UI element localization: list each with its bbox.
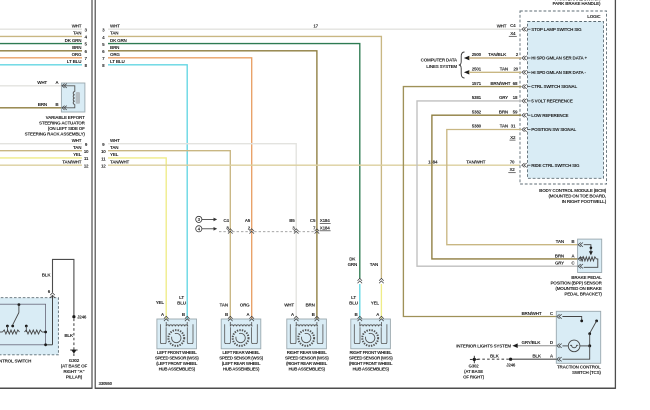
svg-text:LT BLU: LT BLU	[67, 59, 82, 64]
label WHT at right rear pin A	[284, 303, 294, 308]
svg-text:LOGIC: LOGIC	[587, 14, 601, 19]
svg-text:31: 31	[511, 124, 516, 129]
label ORG at left rear pin A	[240, 303, 250, 308]
svg-text:IN RIGHT FOOTWELL): IN RIGHT FOOTWELL)	[562, 199, 607, 204]
connector X184 pin C4	[223, 218, 232, 234]
sensor: left front wheel speed sensor	[157, 312, 197, 349]
svg-text:YEL: YEL	[73, 152, 82, 157]
connector X184 pin C5	[310, 218, 319, 234]
ground G302 left	[70, 350, 77, 356]
wire TAN row 10 to left rear sensor pin B	[101, 145, 230, 319]
svg-text:TAN/WHT: TAN/WHT	[466, 160, 486, 165]
svg-text:(LEFT REAR WHEEL: (LEFT REAR WHEEL	[222, 361, 261, 366]
svg-text:(AT BASE: (AT BASE	[464, 369, 483, 374]
svg-text:J246: J246	[77, 315, 87, 320]
connector right front TAN to YEL	[370, 262, 384, 319]
sensor: left rear wheel speed sensor	[221, 312, 261, 349]
svg-text:X2: X2	[509, 167, 515, 172]
svg-text:20: 20	[513, 67, 518, 72]
svg-text:SPEED SENSOR (WSS): SPEED SENSOR (WSS)	[219, 355, 263, 360]
svg-text:(ON LEFT SIDE OF: (ON LEFT SIDE OF	[48, 126, 85, 131]
wire TAN/WHT left page row 12	[0, 160, 89, 169]
svg-text:SPEED SENSOR (WSS): SPEED SENSOR (WSS)	[349, 355, 393, 360]
wire TAN left page row 10	[0, 145, 89, 154]
svg-text:(MOUNTED ON BRAKE: (MOUNTED ON BRAKE	[555, 286, 601, 291]
wire BRN row 6 to right rear sensor pin B	[102, 45, 317, 319]
svg-text:RIGHT REAR WHEEL: RIGHT REAR WHEEL	[287, 350, 327, 355]
svg-text:68: 68	[513, 81, 518, 86]
svg-text:1384: 1384	[428, 160, 438, 165]
svg-text:NTROL SWITCH: NTROL SWITCH	[0, 359, 31, 364]
wire BRN to steering actuator pin B	[0, 102, 61, 108]
svg-text:GRY: GRY	[555, 261, 564, 266]
wire BLK J246 to TCS pin A	[511, 354, 557, 360]
wire WHT left page row 3	[0, 24, 87, 33]
svg-text:BLK: BLK	[64, 333, 74, 338]
svg-text:WHT: WHT	[497, 24, 507, 29]
svg-text:HI SPD GMLAN SER DATA -: HI SPD GMLAN SER DATA -	[531, 70, 586, 75]
svg-text:INTERIOR LIGHTS SYSTEM: INTERIOR LIGHTS SYSTEM	[456, 343, 511, 348]
BCM pin 5 VOLT REFERENCE	[522, 99, 573, 104]
label TAN at left rear pin B	[220, 303, 228, 308]
svg-text:HUB ASSEMBLIES): HUB ASSEMBLIES)	[288, 366, 325, 371]
svg-text:DK GRN: DK GRN	[110, 38, 127, 43]
svg-text:TAN: TAN	[500, 124, 508, 129]
svg-text:BODY CONTROL MODULE (BCM): BODY CONTROL MODULE (BCM)	[539, 188, 607, 193]
page border: right page left edge	[94, 0, 96, 389]
svg-text:TAN/WHT: TAN/WHT	[62, 160, 82, 165]
svg-text:J246: J246	[506, 362, 516, 367]
svg-text:1571: 1571	[472, 81, 482, 86]
svg-text:(AT BASE OF: (AT BASE OF	[61, 364, 88, 369]
svg-text:RIDE CTRL SWITCH SIG: RIDE CTRL SWITCH SIG	[531, 163, 580, 168]
svg-text:HUB ASSEMBLIES): HUB ASSEMBLIES)	[352, 366, 389, 371]
label variable effort steering actuator	[25, 115, 86, 136]
wire TAN circuit 5380 BCM to BPP pin B	[447, 124, 578, 245]
svg-text:BRN: BRN	[110, 45, 119, 50]
wire BLK G302 to J246 dashed	[478, 354, 510, 360]
svg-text:TAN: TAN	[500, 67, 508, 72]
svg-text:12: 12	[101, 164, 106, 169]
BCM pin RIDE CTRL SWITCH SIG	[522, 163, 580, 168]
page border: right page right edge	[614, 0, 616, 389]
label left rear WSS	[219, 350, 263, 372]
connector right front DK GRN to LT BLU	[348, 256, 363, 319]
module: body control module outer box	[520, 11, 607, 184]
BCM pin STOP LAMP SWITCH SIG	[522, 27, 582, 32]
label BRN at right rear pin B	[305, 303, 314, 308]
svg-text:G302: G302	[69, 358, 80, 363]
svg-text:HUB ASSEMBLIES): HUB ASSEMBLIES)	[223, 366, 260, 371]
svg-text:BLK: BLK	[532, 354, 542, 359]
wire WHT row 9 to right rear sensor pin A	[102, 138, 296, 319]
svg-text:BRN: BRN	[499, 109, 508, 114]
svg-text:2500: 2500	[472, 52, 482, 57]
svg-text:ORG: ORG	[72, 52, 82, 57]
svg-text:YEL: YEL	[156, 300, 165, 305]
sensor: right front wheel speed sensor	[351, 312, 391, 349]
svg-text:11: 11	[101, 156, 106, 161]
svg-text:5 VOLT REFERENCE: 5 VOLT REFERENCE	[531, 99, 573, 104]
svg-text:10: 10	[101, 149, 106, 154]
svg-text:COMPUTER DATA: COMPUTER DATA	[421, 57, 458, 62]
label G302 left	[61, 358, 88, 380]
actuator: variable effort steering actuator	[61, 83, 85, 112]
wire BLK switch to splice J246	[42, 259, 74, 316]
label brake pedal position sensor	[550, 275, 602, 297]
BCM pin HI SPD GMLAN SER DATA -	[522, 70, 587, 75]
svg-text:TAN: TAN	[220, 303, 228, 308]
svg-text:WHT: WHT	[110, 138, 120, 143]
svg-text:X184: X184	[320, 225, 330, 230]
switch: traction control switch	[556, 311, 600, 363]
wire WHT to steering actuator pin A	[0, 80, 61, 86]
svg-text:STEERING ACTUATOR: STEERING ACTUATOR	[39, 120, 86, 125]
svg-text:BRN: BRN	[72, 45, 81, 50]
svg-text:LT: LT	[351, 295, 356, 300]
footnote ref 3	[196, 216, 218, 222]
page border: left page right edge	[91, 0, 93, 389]
wire DK GRN left page row 5	[0, 38, 87, 47]
svg-text:(MOUNTED ON TOE BOARD,: (MOUNTED ON TOE BOARD,	[549, 193, 606, 198]
svg-text:330550: 330550	[99, 381, 113, 386]
label G302 right	[463, 364, 484, 380]
svg-text:TRACTION CONTROL: TRACTION CONTROL	[557, 365, 601, 370]
wire GRY circuit 5381 BCM to BPP pin C	[417, 95, 578, 266]
wire BRN left page row 6	[0, 45, 87, 54]
svg-text:TAN: TAN	[110, 31, 118, 36]
svg-text:BLU: BLU	[177, 301, 186, 306]
wire GRY/BLK to interior lights system	[456, 343, 556, 348]
wire YEL left page row 11	[0, 152, 89, 161]
svg-text:B5: B5	[289, 218, 295, 223]
svg-text:LEFT REAR WHEEL: LEFT REAR WHEEL	[222, 350, 260, 355]
svg-text:YEL: YEL	[371, 301, 380, 306]
sensor: brake pedal position sensor	[578, 239, 602, 272]
svg-text:5381: 5381	[472, 95, 482, 100]
svg-text:(RIGHT REAR WHEEL: (RIGHT REAR WHEEL	[286, 361, 328, 366]
svg-text:C4: C4	[510, 23, 516, 28]
label right rear WSS	[285, 350, 329, 372]
wire LT BLU row 8 to left front sensor pin B	[102, 59, 187, 319]
svg-text:CTRL SWITCH SIGNAL: CTRL SWITCH SIGNAL	[531, 84, 577, 89]
svg-text:GRY: GRY	[499, 95, 508, 100]
footnote ref 4	[196, 226, 218, 232]
wire YEL row 11 to left front sensor pin A	[101, 152, 166, 319]
svg-text:TAN/BLK: TAN/BLK	[488, 52, 507, 57]
svg-text:YEL: YEL	[110, 152, 119, 157]
svg-text:WHT: WHT	[110, 24, 120, 29]
label left front WSS	[155, 350, 199, 372]
svg-text:17: 17	[313, 24, 318, 29]
svg-text:18: 18	[513, 95, 518, 100]
svg-text:SPEED SENSOR (WSS): SPEED SENSOR (WSS)	[285, 355, 329, 360]
svg-text:ORG: ORG	[240, 303, 250, 308]
svg-text:BRN/WHT: BRN/WHT	[521, 311, 541, 316]
svg-text:11: 11	[84, 156, 89, 161]
label body control module	[539, 188, 607, 204]
connector X184 pin B5	[289, 218, 298, 234]
ground G302 right	[470, 356, 479, 363]
svg-text:C5: C5	[310, 218, 316, 223]
svg-text:G302: G302	[469, 364, 480, 369]
wire BRN circuit 5382 BCM to BPP pin A	[432, 109, 578, 259]
svg-text:PEDAL BRACKET): PEDAL BRACKET)	[564, 291, 602, 296]
BCM pin LOW REFERENCE	[522, 113, 569, 118]
svg-text:OF RIGHT): OF RIGHT)	[463, 374, 484, 379]
page border: right page bottom	[95, 387, 615, 389]
switch: ride control switch (cut off)	[0, 289, 58, 355]
svg-text:WHT: WHT	[72, 138, 82, 143]
module: BCM logic inner box	[528, 22, 604, 179]
BCM pin CTRL SWITCH SIGNAL	[522, 84, 578, 89]
svg-text:59: 59	[513, 109, 518, 114]
svg-text:RIGHT "A": RIGHT "A"	[63, 369, 84, 374]
label diagram number 330550	[99, 381, 113, 386]
BCM pin POSITION SW SIGNAL	[522, 127, 577, 132]
wire LT BLU left page row 8	[0, 59, 87, 68]
wire ORG row 7 to left rear sensor pin A	[102, 52, 252, 319]
svg-text:BRAKE PEDAL: BRAKE PEDAL	[571, 275, 602, 280]
svg-text:STEERING RACK ASSEMBLY): STEERING RACK ASSEMBLY)	[25, 131, 86, 136]
svg-text:A5: A5	[245, 218, 251, 223]
wire BRN/WHT circuit 1571 BCM to TCS pin C	[403, 81, 556, 317]
brace computer data lines	[459, 52, 465, 78]
svg-text:SWITCH (TCS): SWITCH (TCS)	[572, 370, 601, 375]
svg-text:TAN: TAN	[73, 31, 81, 36]
label LT BLU at left front pin B	[177, 295, 186, 306]
label computer data lines system	[421, 57, 458, 69]
svg-text:5382: 5382	[472, 109, 482, 114]
svg-text:ORG: ORG	[110, 52, 120, 57]
svg-text:POSITION (BPP) SENSOR: POSITION (BPP) SENSOR	[550, 280, 602, 285]
svg-text:TAN/WHT: TAN/WHT	[110, 160, 130, 165]
svg-text:PILLAR): PILLAR)	[66, 375, 83, 380]
connector X184 dashed body	[219, 231, 319, 233]
svg-text:BRN: BRN	[555, 253, 564, 258]
svg-text:TAN: TAN	[370, 262, 378, 267]
svg-text:LEFT FRONT WHEEL: LEFT FRONT WHEEL	[157, 350, 197, 355]
svg-text:2501: 2501	[472, 67, 482, 72]
label GRY/BLK pin D	[522, 340, 554, 345]
label right front WSS	[349, 350, 393, 372]
svg-text:X184: X184	[320, 218, 330, 223]
label traction control switch	[557, 365, 601, 376]
splice J246 left	[72, 315, 87, 320]
svg-text:WHT: WHT	[72, 24, 82, 29]
svg-text:SPEED SENSOR (WSS): SPEED SENSOR (WSS)	[155, 355, 199, 360]
svg-text:PARK BRAKE SWITCH: PARK BRAKE SWITCH	[555, 0, 600, 2]
svg-text:RIGHT FRONT WHEEL: RIGHT FRONT WHEEL	[350, 350, 393, 355]
svg-text:TAN: TAN	[110, 145, 118, 150]
page border: left page bottom	[0, 387, 92, 389]
wire TAN left page row 4	[0, 31, 87, 40]
svg-text:TAN: TAN	[73, 145, 81, 150]
svg-text:12: 12	[84, 163, 89, 168]
svg-text:DK: DK	[349, 256, 356, 261]
svg-text:STOP LAMP SWITCH SIG: STOP LAMP SWITCH SIG	[531, 27, 582, 32]
svg-text:(LEFT FRONT WHEEL: (LEFT FRONT WHEEL	[156, 361, 198, 366]
BCM pin HI SPD GMLAN SER DATA +	[522, 56, 588, 61]
svg-text:GRY/BLK: GRY/BLK	[522, 340, 542, 345]
label LOGIC	[587, 14, 601, 19]
svg-text:LINES SYSTEM: LINES SYSTEM	[426, 64, 457, 69]
pin label C4 X4	[509, 23, 517, 37]
wire TAN/WHT circuit 1384 row 12 to BCM ride ctrl switch sig	[101, 160, 521, 169]
svg-text:HI SPD GMLAN SER DATA +: HI SPD GMLAN SER DATA +	[531, 56, 587, 61]
svg-text:HUB ASSEMBLIES): HUB ASSEMBLIES)	[159, 366, 196, 371]
svg-text:70: 70	[510, 160, 515, 165]
label control switch	[0, 359, 31, 364]
svg-text:BLK: BLK	[490, 354, 500, 359]
wire DK GRN row 5 to right front connector	[102, 38, 360, 279]
wire TAN row 4 to right front connector	[102, 31, 381, 279]
svg-text:C4: C4	[223, 218, 229, 223]
svg-text:BLK: BLK	[42, 273, 52, 278]
wire WHT left page row 9	[0, 138, 88, 147]
svg-text:WHT: WHT	[37, 80, 47, 85]
label park brake handle	[553, 1, 601, 6]
svg-text:BRN: BRN	[38, 102, 47, 107]
svg-text:X2: X2	[510, 135, 516, 140]
svg-text:LT BLU: LT BLU	[110, 59, 125, 64]
svg-text:LT: LT	[179, 295, 184, 300]
svg-text:DK GRN: DK GRN	[65, 38, 82, 43]
sensor: right rear wheel speed sensor	[287, 312, 327, 349]
svg-text:VARIABLE EFFORT: VARIABLE EFFORT	[46, 115, 85, 120]
wire TAN circuit 2501 GMLAN-	[464, 67, 521, 75]
pin label 70 X2	[508, 160, 515, 173]
label YEL at left front pin A	[156, 300, 165, 305]
svg-text:BRN/WHT: BRN/WHT	[490, 81, 510, 86]
wire TAN/BLK circuit 2500 GMLAN+	[464, 52, 521, 60]
svg-text:POSITION SW SIGNAL: POSITION SW SIGNAL	[531, 127, 576, 132]
svg-text:(RIGHT FRONT WHEEL: (RIGHT FRONT WHEEL	[349, 361, 393, 366]
svg-text:TAN: TAN	[556, 239, 564, 244]
svg-text:10: 10	[84, 149, 89, 154]
svg-text:5380: 5380	[472, 124, 482, 129]
svg-text:X4: X4	[510, 31, 516, 36]
svg-text:BRN: BRN	[305, 303, 314, 308]
svg-text:LOW REFERENCE: LOW REFERENCE	[531, 113, 568, 118]
wire BLK J246 to G302 left	[64, 319, 74, 350]
svg-text:WHT: WHT	[284, 303, 294, 308]
svg-text:GRN: GRN	[348, 262, 357, 267]
splice J246 right	[506, 358, 516, 368]
wire WHT circuit 17 row 3 to BCM stop lamp switch sig	[102, 24, 521, 33]
svg-text:BLU: BLU	[349, 301, 358, 306]
connector X184 pin A5	[245, 218, 254, 234]
wire ORG left page row 7	[0, 52, 87, 61]
label cut text top	[555, 0, 600, 2]
label X184	[320, 218, 331, 231]
pin label X2 under 31	[510, 135, 516, 140]
